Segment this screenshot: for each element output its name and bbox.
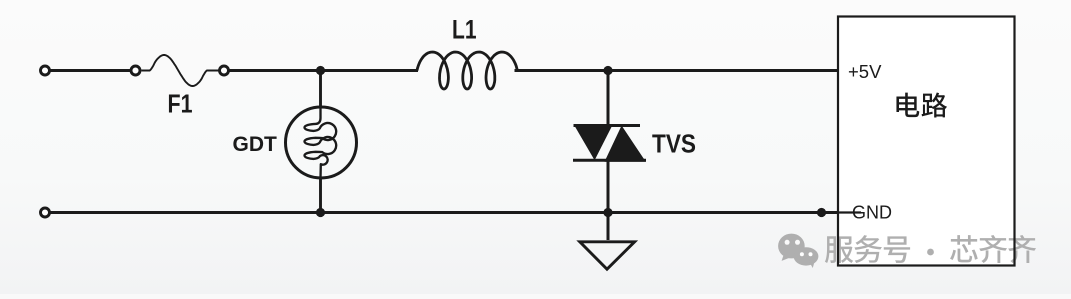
TVS left triangle <box>574 124 614 160</box>
watermark wechat icon: big bubble tail <box>782 254 790 261</box>
watermark wechat icon: big bubble <box>778 234 805 259</box>
watermark wechat icon: eyes <box>785 240 790 245</box>
svg-text:TVS: TVS <box>652 131 696 159</box>
wire bottom rail <box>50 211 839 214</box>
watermark text 务 <box>854 235 882 263</box>
inductor L1 <box>417 52 517 89</box>
svg-text:+5V: +5V <box>848 61 882 82</box>
wire top rail left <box>50 69 131 72</box>
terminal fuse right <box>220 66 229 75</box>
watermark text 号 <box>884 236 910 263</box>
GDT inner coil element <box>305 107 337 179</box>
terminal fuse left <box>131 66 140 75</box>
watermark middle dot <box>927 249 934 256</box>
watermark text 服 <box>825 236 853 263</box>
ground symbol <box>580 242 635 269</box>
junction dot GDT top <box>316 66 325 75</box>
TVS right triangle <box>605 126 646 162</box>
svg-text:F1: F1 <box>168 89 193 119</box>
watermark text 芯 <box>950 235 978 262</box>
svg-text:L1: L1 <box>452 15 477 45</box>
TVS vertical wire top <box>607 71 610 127</box>
TVS top bar <box>574 124 641 127</box>
wire top rail: L1 to box <box>515 69 840 72</box>
junction dot GND at box <box>817 208 826 217</box>
GDT vertical wire top <box>319 71 322 109</box>
TVS vertical wire bottom <box>607 160 610 240</box>
GDT circle <box>286 107 357 178</box>
junction dot TVS bottom <box>603 208 612 217</box>
GDT vertical wire bottom <box>319 177 322 213</box>
watermark text 齐 (2) <box>1008 235 1036 263</box>
circuit block U1 box outline <box>838 17 1015 266</box>
wire GND stub into box <box>839 211 861 213</box>
wire top rail: fuse to L1 <box>229 69 418 72</box>
TVS bottom bar <box>573 159 646 162</box>
terminal input bottom-left <box>41 208 50 217</box>
watermark wechat icon: small bubble tail <box>809 260 815 268</box>
circuit block box fill <box>838 17 1015 266</box>
fuse F1 element <box>142 55 219 86</box>
junction dot GDT bottom <box>316 208 325 217</box>
watermark wechat icon: small bubble <box>794 247 819 265</box>
watermark text 齐 (1) <box>979 235 1007 263</box>
label 路 inside box <box>922 93 947 118</box>
junction dot TVS top <box>603 66 612 75</box>
label 电 inside box <box>896 93 919 118</box>
terminal input top-left <box>41 66 50 75</box>
svg-text:GDT: GDT <box>233 133 278 156</box>
